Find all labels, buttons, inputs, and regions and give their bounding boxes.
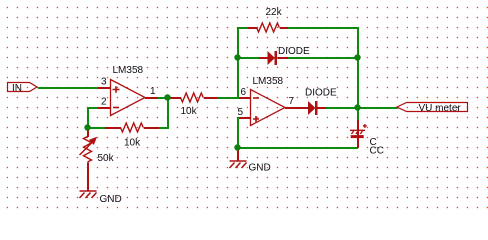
svg-text:DIODE: DIODE [278,46,310,57]
svg-text:2: 2 [101,97,107,108]
svg-text:3: 3 [101,77,107,88]
svg-text:DIODE: DIODE [305,88,337,99]
svg-text:5: 5 [238,107,244,118]
svg-text:10k: 10k [124,138,141,149]
svg-text:10k: 10k [181,106,198,117]
svg-text:1: 1 [150,86,156,97]
svg-text:LM358: LM358 [253,76,284,87]
svg-text:VU meter: VU meter [419,103,462,114]
svg-text:IN: IN [12,83,22,94]
svg-text:6: 6 [241,87,247,98]
svg-text:7: 7 [289,96,295,107]
svg-text:GND: GND [100,194,122,205]
svg-text:22k: 22k [266,7,283,18]
svg-text:50k: 50k [98,153,115,164]
svg-text:CC: CC [370,146,384,157]
svg-text:GND: GND [249,163,271,174]
svg-text:LM358: LM358 [113,65,144,76]
